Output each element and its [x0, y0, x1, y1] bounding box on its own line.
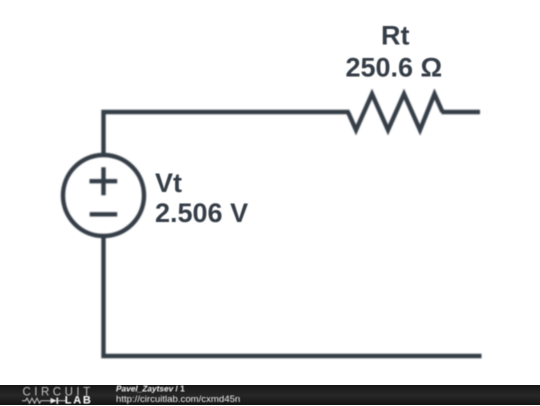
resistor Rt (zigzag body): [348, 94, 443, 130]
svg-text:Vt: Vt: [155, 168, 182, 198]
logo resistor squiggle: [22, 398, 51, 403]
svg-text:Rt: Rt: [381, 21, 410, 51]
svg-text:Pavel_Zaytsev / 1: Pavel_Zaytsev / 1: [116, 385, 185, 393]
wire: Vt + terminal up and across to resistor Rt: [104, 112, 350, 154]
logo lead wire to LAB: [58, 399, 66, 401]
logo diode symbol: [51, 397, 57, 403]
svg-text:2.506 V: 2.506 V: [155, 198, 248, 228]
plus sign of source: [90, 167, 118, 195]
footer bar: [0, 385, 540, 406]
svg-text:http://circuitlab.com/cxmd45n: http://circuitlab.com/cxmd45n: [116, 394, 240, 405]
wire: Vt - terminal down and across to open right terminal: [104, 237, 482, 356]
svg-text:250.6 Ω: 250.6 Ω: [345, 53, 442, 83]
voltage source Vt circle: [63, 155, 144, 236]
minus sign of source: [90, 212, 118, 216]
wire: resistor Rt to open right terminal: [442, 110, 481, 114]
logo diode cathode bar: [56, 397, 58, 403]
svg-text:LAB: LAB: [65, 394, 93, 406]
